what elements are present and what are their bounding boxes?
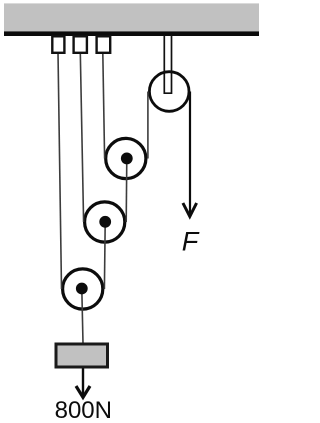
svg-text:800N: 800N [55, 397, 112, 423]
svg-text:F: F [182, 227, 200, 257]
